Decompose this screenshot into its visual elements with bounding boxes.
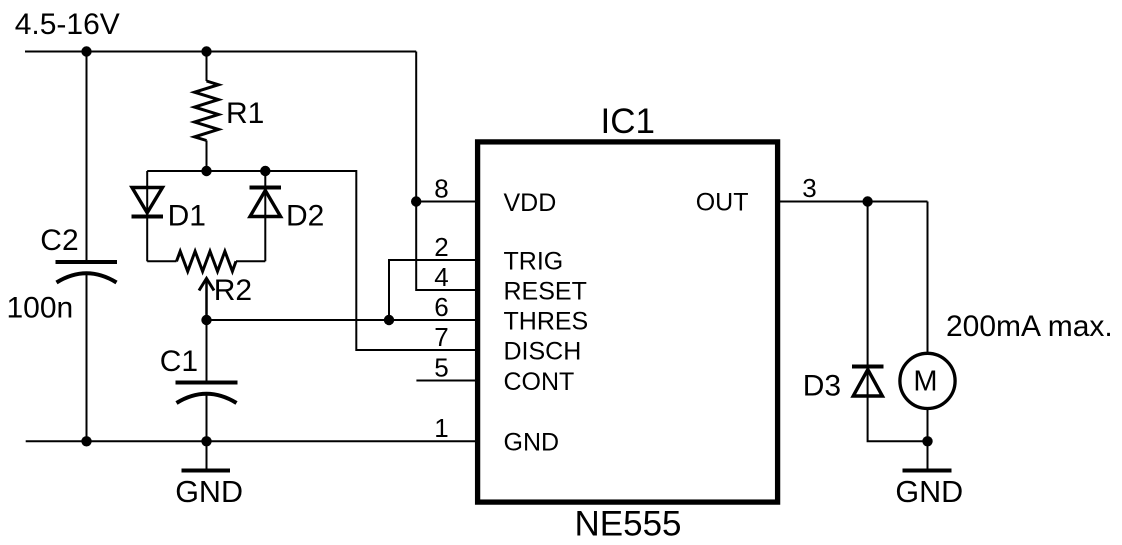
motor M bbox=[900, 353, 955, 408]
junction dot motor-ground bbox=[922, 436, 932, 446]
junction dot D2 rail bbox=[260, 166, 270, 176]
junction dot C2-ground bbox=[81, 436, 91, 446]
svg-text:TRIG: TRIG bbox=[504, 248, 564, 276]
junction dot R1-D1 rail bbox=[201, 166, 211, 176]
wire: TRIG wire bbox=[389, 260, 475, 320]
wire: R1 bottom lead bbox=[206, 141, 208, 172]
op-amp box IC1 NE555 bbox=[478, 142, 778, 502]
wire: ground rail / pin 1 bbox=[26, 440, 475, 442]
wire: C2 branch vertical bottom bbox=[86, 273, 88, 442]
wire: motor bottom lead bbox=[927, 409, 929, 441]
svg-text:6: 6 bbox=[434, 292, 448, 322]
junction dot OUT-D3 bbox=[862, 196, 872, 206]
junction dot supply-C2 bbox=[81, 46, 91, 56]
junction dot R2 wiper-THRES bbox=[201, 315, 211, 325]
wire: C2 branch vertical top bbox=[86, 52, 88, 263]
junction dot TRIG-THRES bbox=[384, 315, 394, 325]
svg-text:D1: D1 bbox=[168, 200, 206, 233]
svg-text:5: 5 bbox=[434, 353, 448, 383]
ground symbol left bbox=[182, 441, 231, 470]
svg-text:C2: C2 bbox=[40, 224, 78, 257]
svg-text:GND: GND bbox=[895, 475, 963, 509]
svg-text:GND: GND bbox=[504, 429, 560, 457]
ground symbol right bbox=[903, 441, 952, 470]
junction dot C1-ground bbox=[201, 436, 211, 446]
svg-text:VDD: VDD bbox=[504, 189, 557, 217]
svg-text:200mA max.: 200mA max. bbox=[946, 310, 1113, 343]
wire: pin 8 stub bbox=[416, 201, 475, 203]
svg-text:R2: R2 bbox=[214, 274, 252, 307]
svg-text:CONT: CONT bbox=[504, 368, 575, 396]
svg-text:C1: C1 bbox=[160, 345, 198, 378]
R2 wiper arrow bbox=[199, 279, 214, 321]
wire: OUT pin 3 bbox=[780, 201, 928, 203]
wire: loop bottom right bbox=[236, 260, 265, 262]
wire: THRES wire bbox=[207, 319, 476, 321]
resistor R1 bbox=[195, 81, 219, 141]
svg-text:THRES: THRES bbox=[504, 308, 589, 336]
svg-text:IC1: IC1 bbox=[601, 102, 655, 141]
diode D3 bbox=[852, 367, 884, 397]
diode D2 bbox=[250, 171, 282, 261]
svg-text:M: M bbox=[913, 365, 937, 397]
svg-text:DISCH: DISCH bbox=[504, 338, 582, 366]
wire: D3 branch bbox=[868, 202, 928, 442]
wire: R1 top lead bbox=[206, 52, 208, 82]
wire: positive supply rail bbox=[25, 51, 416, 53]
junction dot pin8 bbox=[411, 196, 421, 206]
svg-text:R1: R1 bbox=[226, 97, 264, 130]
diode D1 bbox=[132, 171, 164, 261]
svg-text:D2: D2 bbox=[286, 200, 324, 233]
svg-text:GND: GND bbox=[175, 475, 243, 509]
capacitor C1 bbox=[176, 383, 238, 404]
wire: VDD drop to pin 8 bbox=[416, 52, 475, 291]
svg-text:1: 1 bbox=[434, 413, 448, 443]
wire: motor top lead bbox=[927, 202, 929, 353]
svg-text:RESET: RESET bbox=[504, 278, 587, 306]
svg-text:OUT: OUT bbox=[696, 189, 749, 217]
wire: C1 bottom lead bbox=[206, 394, 208, 442]
svg-text:100n: 100n bbox=[7, 292, 74, 325]
svg-text:2: 2 bbox=[434, 232, 448, 262]
svg-text:NE555: NE555 bbox=[575, 505, 682, 544]
svg-text:3: 3 bbox=[802, 173, 816, 203]
svg-text:7: 7 bbox=[434, 322, 448, 352]
junction dot supply-R1 bbox=[201, 46, 211, 56]
svg-text:4: 4 bbox=[434, 262, 448, 292]
wire: C1 top lead bbox=[206, 320, 208, 383]
wire: CONT stub pin 5 bbox=[416, 380, 475, 382]
svg-text:8: 8 bbox=[434, 174, 448, 204]
svg-text:4.5-16V: 4.5-16V bbox=[15, 8, 120, 41]
svg-text:D3: D3 bbox=[803, 369, 841, 402]
wire: loop bottom left bbox=[147, 260, 176, 262]
potentiometer R2 bbox=[177, 251, 237, 271]
capacitor C2 bbox=[56, 262, 118, 283]
wire: diode top rail to DISCH bbox=[147, 171, 475, 350]
